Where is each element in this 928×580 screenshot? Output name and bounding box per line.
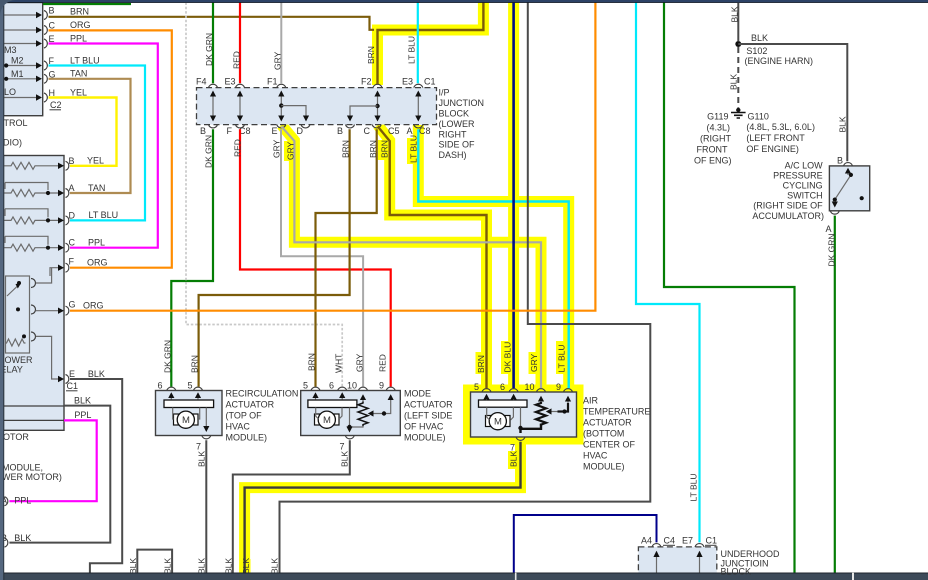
air temp actuator ground link to pin 7 (bold) [521, 424, 542, 434]
svg-text:(4.3L): (4.3L) [706, 123, 730, 133]
wire DK GRN A/C switch pin A to ground bus [834, 216, 836, 575]
svg-text:BLK: BLK [838, 116, 848, 132]
svg-text:PPL: PPL [70, 33, 87, 43]
wire DK GRN top edge to I/P pin F4 [212, 0, 214, 83]
svg-text:DASH): DASH) [439, 150, 467, 160]
mode actuator bottom pin arc 7 [345, 436, 354, 439]
I/P junction block (dashed) [197, 88, 437, 125]
svg-text:BLK: BLK [128, 558, 138, 574]
svg-text:GRY: GRY [529, 353, 539, 372]
svg-text:S102: S102 [746, 46, 767, 56]
highlight patch: label LT BLU at air temp pin 9 [556, 341, 566, 374]
switch blade and contacts [835, 175, 851, 200]
recirc actuator motor M [174, 414, 179, 425]
wire PPL control head pin E to resistor block pin C [49, 44, 158, 248]
svg-text:OTOR: OTOR [3, 432, 29, 442]
air temp actuator position sensor resistor (bold) [536, 402, 546, 426]
svg-text:GRY: GRY [355, 353, 365, 372]
air temp actuator motor M [486, 416, 491, 427]
resistor block pin arcs B A D C F G E [66, 161, 69, 383]
svg-text:FRONT: FRONT [697, 145, 728, 155]
highlight patch: label GRY at I/P pin E [284, 141, 294, 161]
svg-text:OF HVAC: OF HVAC [404, 422, 444, 432]
svg-text:BLK: BLK [270, 558, 280, 574]
wire LT BLU top edge to underhood junction pin E7 [636, 0, 700, 542]
svg-text:LT BLU: LT BLU [557, 344, 567, 372]
highlight patch: label LT BLU at I/P pin A [407, 138, 417, 164]
svg-text:BRN: BRN [380, 140, 390, 158]
wire GRY top edge to I/P pin F1 [280, 0, 282, 83]
svg-text:LT BLU: LT BLU [407, 36, 417, 64]
svg-text:BLOCK: BLOCK [721, 566, 752, 576]
wire DK GRN top edge to ground bus right [664, 0, 795, 575]
svg-text:6: 6 [158, 381, 163, 391]
air temp actuator bottom pin arc 7 [516, 437, 525, 440]
wire BLK (highlighted) air temp actuator pin 7 to ground bus [245, 442, 521, 575]
svg-text:BRN: BRN [476, 355, 486, 373]
svg-text:MODULE): MODULE) [583, 462, 625, 472]
wire LT BLU top edge to I/P pin C1 [417, 0, 419, 83]
svg-text:LO: LO [4, 87, 16, 97]
wire BLK splice S102 to A/C switch pin B [738, 44, 847, 161]
svg-text:MODULE,: MODULE, [2, 463, 43, 473]
wire DK BLU ground bus to underhood junction pin A4 [514, 515, 657, 575]
air temp actuator ground lead from bar [520, 407, 522, 427]
svg-text:TROL: TROL [4, 118, 28, 128]
recirc actuator feed arrows pins 6 and 5 [170, 394, 172, 400]
svg-text:ORG: ORG [87, 258, 108, 268]
page left border [0, 0, 4, 580]
svg-text:DIO): DIO) [3, 138, 22, 148]
svg-text:B: B [837, 156, 843, 166]
A/C low pressure cycling switch box [829, 166, 869, 211]
recirc actuator top pin arcs 6 5 [167, 387, 203, 390]
svg-text:BLK: BLK [88, 369, 105, 379]
svg-text:9: 9 [556, 382, 561, 392]
wire ORG top edge to resistor block pin G [70, 0, 595, 311]
control head internal wire pin B [4, 14, 37, 16]
wire BLK top edge right loop to ground bus [280, 0, 651, 575]
I/P internal through-path F2-C with tap node to pin B [377, 92, 379, 120]
svg-text:C5: C5 [388, 126, 400, 136]
svg-text:6: 6 [329, 381, 334, 391]
blower resistor / power relay block (partial, left) [4, 156, 65, 431]
air temp actuator top pin arcs 5 6 10 9 [482, 389, 573, 392]
highlight patch: label BLK at air temp pin 7 [508, 451, 518, 469]
I/P top pin arcs F4 E3 F1 F2 E3 [209, 84, 423, 87]
svg-text:BLK: BLK [74, 396, 91, 406]
recirc actuator bottom pin arc 7 [202, 436, 211, 439]
svg-text:MODULE): MODULE) [404, 433, 446, 443]
svg-text:PPL: PPL [88, 238, 105, 248]
wire BLK mode actuator pin 7 to ground bus [233, 440, 350, 575]
svg-text:A4: A4 [641, 536, 652, 546]
svg-text:ACTUATOR: ACTUATOR [404, 400, 453, 410]
air temperature actuator M3 box (highlighted) [471, 392, 577, 437]
wire BLK relay block to blower motor pin B [9, 406, 110, 543]
svg-text:A: A [69, 183, 75, 193]
svg-text:I/P: I/P [439, 88, 450, 98]
wire BLK relay pin E C1 to ground bus [70, 379, 122, 575]
svg-text:M3: M3 [4, 45, 17, 55]
I/P bottom pin arcs B F E D B C A [209, 125, 423, 128]
svg-text:(LEFT FRONT: (LEFT FRONT [746, 133, 805, 143]
svg-text:HVAC: HVAC [226, 422, 251, 432]
svg-text:C4: C4 [664, 536, 676, 546]
wire BRN (highlighted) I/P pin C to air temp actuator pin 5 [378, 127, 487, 389]
resistor R row C with tap node [4, 236, 59, 251]
svg-text:BLK: BLK [751, 33, 768, 43]
svg-text:DK GRN: DK GRN [204, 135, 214, 168]
highlight band: LT BLU wire I/P pin A C8 to air temp actuator pin 9 [418, 125, 568, 392]
svg-text:AIR: AIR [583, 396, 599, 406]
control head pin arcs B C E F G H [44, 11, 47, 103]
power relay internal box [6, 276, 30, 353]
svg-text:7: 7 [340, 442, 345, 452]
svg-text:C1: C1 [424, 77, 436, 87]
blower motor pin arcs A B [5, 497, 8, 547]
svg-text:BLK: BLK [730, 6, 740, 22]
mode actuator top pin arcs 5 6 10 9 [311, 387, 395, 390]
svg-text:F1: F1 [267, 77, 278, 87]
svg-text:MODULE): MODULE) [226, 433, 268, 443]
svg-text:WHT: WHT [334, 354, 344, 373]
svg-text:B: B [200, 126, 206, 136]
wire BLK engine harness to splice S102 [737, 3, 739, 42]
svg-text:B: B [337, 126, 343, 136]
page top border [0, 0, 928, 2]
svg-text:CYCLING: CYCLING [783, 181, 823, 191]
switch feed arrow from pin B [847, 170, 849, 176]
resistor R row B [4, 162, 59, 169]
highlight band: BRN wire I/P pin C to air temp actuator pin 5 [378, 125, 487, 392]
svg-text:(4.8L, 5.3L, 6.0L): (4.8L, 5.3L, 6.0L) [746, 122, 815, 132]
svg-text:C: C [364, 126, 371, 136]
svg-text:D: D [297, 126, 304, 136]
highlight patch: label BRN at I/P pin C [378, 140, 388, 160]
svg-text:RED: RED [232, 51, 242, 69]
internal wire pin F [50, 268, 59, 276]
svg-text:C: C [69, 238, 76, 248]
svg-text:D: D [69, 211, 76, 221]
svg-text:5: 5 [188, 381, 193, 391]
relay coil [5, 339, 25, 346]
svg-text:ORG: ORG [70, 20, 91, 30]
svg-text:C2: C2 [50, 100, 62, 110]
svg-text:BLK: BLK [224, 558, 234, 574]
svg-text:UNDERHOOD: UNDERHOOD [721, 549, 781, 559]
svg-text:SIDE OF: SIDE OF [439, 140, 476, 150]
svg-text:YEL: YEL [70, 87, 87, 97]
HVAC control head block (partial, top left) [4, 3, 43, 116]
I/P internal through-path E3-A C8 [417, 92, 419, 120]
svg-text:A/C LOW: A/C LOW [785, 161, 824, 171]
svg-text:(ENGINE HARN): (ENGINE HARN) [745, 56, 814, 66]
svg-text:MODE: MODE [404, 389, 431, 399]
recirc actuator ground link to pin 7 [205, 408, 207, 432]
wire DK BLU (highlighted) top edge to air temp actuator pin 6 [512, 0, 515, 388]
highlight patch: label DK BLU at air temp pin 6 [501, 341, 511, 374]
svg-text:E: E [69, 369, 75, 379]
svg-text:M: M [494, 417, 502, 428]
svg-text:HVAC: HVAC [583, 451, 608, 461]
svg-text:PRESSURE: PRESSURE [773, 171, 823, 181]
relay internal contact arcs [31, 279, 36, 342]
wire BRN I/P pin B to recirculation actuator pin 5 [199, 129, 350, 386]
svg-text:ORG: ORG [83, 301, 104, 311]
svg-text:OF ENG): OF ENG) [694, 156, 732, 166]
svg-text:RIGHT: RIGHT [439, 130, 468, 140]
svg-text:GRY: GRY [273, 51, 283, 70]
svg-text:BLK: BLK [197, 558, 207, 574]
svg-text:(LOWER: (LOWER [439, 119, 476, 129]
svg-text:BLK: BLK [241, 558, 251, 574]
svg-text:F: F [227, 126, 233, 136]
highlight patch: label BRN at air temp pin 5 [476, 352, 486, 374]
svg-text:E3: E3 [402, 77, 413, 87]
mode actuator position sensor resistor [358, 402, 368, 427]
wire RED I/P pin F to mode actuator pin 9 [240, 129, 391, 386]
svg-text:DK GRN: DK GRN [163, 340, 173, 373]
highlight patch: label GRY at air temp pin 10 [529, 352, 539, 374]
svg-text:BRN: BRN [307, 353, 317, 371]
wire LT BLU control head pin F to resistor block pin D [49, 66, 146, 221]
wire YEL control head pin H to resistor block pin B [49, 98, 117, 166]
wire DK GRN stub at control head top [43, 3, 131, 5]
svg-text:BLK: BLK [340, 451, 350, 467]
control head internal wire pin C [4, 29, 37, 31]
svg-text:M2: M2 [11, 56, 24, 66]
svg-text:LT BLU: LT BLU [70, 55, 100, 65]
svg-text:BRN: BRN [366, 46, 376, 64]
svg-text:F: F [69, 257, 75, 267]
control head internal wire pin G with node M1 [4, 78, 37, 80]
relay contact to pin E link [36, 336, 59, 379]
svg-text:C1: C1 [67, 381, 79, 391]
wire GRY (highlighted) I/P pin E to air temp actuator pin 10 [282, 127, 542, 389]
mode actuator wiper arm from pin 9 [372, 402, 391, 414]
recirc actuator motor leads from bar [173, 408, 200, 420]
svg-text:A: A [826, 224, 832, 234]
wire BLK recirculation actuator pin 7 to ground bus [205, 440, 207, 575]
ground strap at bus below resistor block [137, 550, 172, 575]
mode actuator motor M [315, 414, 320, 425]
svg-text:RED: RED [378, 354, 388, 372]
highlight band: BRN wire control head B to I/P F2 and off page top [378, 0, 484, 85]
relay block internal divider lines [4, 405, 65, 407]
highlight patch: label BLK at ground bus below air temp [241, 559, 251, 574]
svg-text:(RIGHT SIDE OF: (RIGHT SIDE OF [753, 201, 823, 211]
svg-text:E3: E3 [225, 77, 236, 87]
underhood internal pin feeds A4 and E7 [656, 552, 658, 579]
splice S102 [735, 41, 741, 47]
svg-text:RECIRCULATION: RECIRCULATION [226, 389, 299, 399]
I/P internal through-path E3-F C8 [239, 92, 241, 120]
svg-text:E7: E7 [682, 536, 693, 546]
svg-text:G: G [69, 300, 76, 310]
svg-text:5: 5 [474, 382, 479, 392]
mode actuator motor leads from bar [316, 408, 342, 420]
svg-text:M: M [182, 415, 190, 426]
page corner round [0, 0, 16, 16]
I/P internal through-path F1-E with tap node to pin D [280, 92, 282, 120]
svg-text:BLK: BLK [197, 451, 207, 467]
svg-text:M: M [323, 415, 331, 426]
resistor R row D with tap node [4, 209, 59, 224]
svg-text:DK BLU: DK BLU [503, 342, 513, 373]
svg-text:LT BLU: LT BLU [89, 210, 119, 220]
svg-text:BRN: BRN [70, 7, 89, 17]
wire GRY I/P pin E to mode actuator pin 10 [281, 129, 363, 386]
control head internal wire pin E [4, 43, 37, 45]
switch exit arrow to pin A [834, 201, 836, 206]
air temp actuator motor leads from bar [487, 407, 514, 420]
wire RED top edge to I/P pin E3 [239, 0, 241, 83]
recirculation actuator M1 box [156, 391, 223, 436]
I/P internal through-path F4-B [212, 92, 214, 120]
svg-text:10: 10 [525, 382, 535, 392]
svg-text:E: E [272, 126, 278, 136]
wire BLK (dashed) splice S102 to ground G119 G110 [737, 47, 739, 108]
highlight glow: air temperature actuator box [467, 388, 581, 441]
wire BRN (highlighted) corner to I/P pin F2 and off page top [378, 0, 484, 84]
ground bus bar at page bottom [0, 573, 928, 580]
svg-text:TAN: TAN [70, 69, 87, 79]
svg-text:GRY: GRY [272, 139, 282, 158]
switch pin arcs B A [830, 163, 852, 215]
svg-text:C8: C8 [419, 126, 431, 136]
control head internal wire pin H [4, 97, 37, 99]
svg-text:BRN: BRN [190, 355, 200, 373]
svg-text:WER MOTOR): WER MOTOR) [2, 472, 62, 482]
svg-text:A: A [407, 126, 413, 136]
air temp actuator lever bar [479, 400, 528, 407]
svg-text:LT BLU: LT BLU [409, 135, 419, 163]
ground G119 G110 [736, 108, 740, 112]
svg-text:(TOP OF: (TOP OF [226, 411, 263, 421]
svg-text:B: B [69, 156, 75, 166]
mode actuator ground lead from bar with node to pin 7 [350, 408, 364, 432]
wire PPL relay block to blower motor pin A [9, 420, 96, 501]
svg-text:6: 6 [500, 382, 505, 392]
wire ORG control head pin C to resistor block pin F [49, 30, 172, 267]
svg-text:BLOCK: BLOCK [439, 109, 470, 119]
control head internal wire pin F with node M2 [4, 65, 37, 67]
svg-text:BLK: BLK [509, 451, 519, 467]
wire TAN control head pin G to resistor block pin A [49, 79, 131, 193]
mode actuator feed arrows pins 5 and 6 [315, 394, 317, 400]
wire BRN control head pin B to I/P F2 corner [49, 17, 375, 30]
svg-text:BLK: BLK [729, 74, 739, 90]
mode actuator feed arrows pins 10 and 9 [362, 396, 364, 402]
svg-text:SWITCH: SWITCH [787, 191, 823, 201]
svg-text:PPL: PPL [74, 410, 91, 420]
svg-text:TAN: TAN [88, 183, 105, 193]
mode actuator lever bar [308, 400, 357, 408]
svg-text:YEL: YEL [87, 156, 104, 166]
highlight band: GRY wire I/P pin E to air temp actuator pin 10 [282, 125, 542, 392]
relay switch blade arrow [7, 286, 18, 296]
svg-text:G119: G119 [707, 112, 728, 122]
svg-text:DK GRN: DK GRN [204, 33, 214, 66]
underhood junction block (dashed) [638, 547, 716, 580]
wire LT BLU (highlighted) I/P pin A to air temp actuator pin 9 [418, 129, 568, 388]
svg-text:ACCUMULATOR): ACCUMULATOR) [752, 211, 824, 221]
highlight band: DK BLU wire top edge to air temp actuator pin 6 [508, 0, 519, 392]
svg-text:BRN: BRN [368, 140, 378, 158]
svg-text:BLK: BLK [14, 533, 31, 543]
svg-text:LT BLU: LT BLU [689, 473, 699, 501]
svg-text:GRY: GRY [286, 141, 296, 160]
svg-text:OWER: OWER [5, 355, 33, 365]
svg-text:ACTUATOR: ACTUATOR [226, 400, 275, 410]
svg-text:ACTUATOR: ACTUATOR [583, 418, 632, 428]
svg-text:BLK: BLK [163, 558, 173, 574]
mode actuator M2 box [301, 391, 401, 436]
wire DK GRN I/P pin B to recirculation actuator pin 6 [171, 129, 213, 386]
svg-text:BRN: BRN [341, 140, 351, 158]
underhood top pin arcs A4 E7 [652, 544, 704, 547]
svg-text:(BOTTOM: (BOTTOM [583, 429, 624, 439]
svg-text:F4: F4 [196, 77, 207, 87]
svg-text:DK GRN: DK GRN [827, 233, 837, 266]
svg-text:CENTER OF: CENTER OF [583, 440, 636, 450]
recirc actuator lever bar [164, 400, 214, 408]
air temp actuator wiper arm from pin 9 [558, 403, 569, 412]
svg-text:RED: RED [233, 139, 243, 157]
svg-text:TEMPERATURE: TEMPERATURE [583, 407, 650, 417]
svg-text:7: 7 [196, 442, 201, 452]
wire WHT top edge to mode actuator pin 6 [186, 3, 342, 387]
svg-text:9: 9 [379, 381, 384, 391]
svg-text:OF ENGINE): OF ENGINE) [746, 144, 799, 154]
svg-text:G110: G110 [748, 112, 769, 122]
svg-text:C: C [49, 21, 56, 31]
svg-text:F2: F2 [361, 77, 372, 87]
highlight band: BLK wire air temp actuator pin 7 to ground bus [245, 437, 521, 575]
svg-text:10: 10 [347, 381, 357, 391]
resistor R row A with tap node [4, 183, 59, 197]
svg-text:(RIGHT: (RIGHT [700, 134, 731, 144]
svg-text:5: 5 [303, 381, 308, 391]
svg-text:JUNCTION: JUNCTION [439, 98, 485, 108]
svg-text:B: B [49, 6, 55, 16]
svg-text:C1: C1 [706, 536, 718, 546]
svg-text:M1: M1 [11, 69, 24, 79]
wire BRN I/P pin C to mode actuator pin 5 [316, 129, 377, 386]
relay contact to pin G link [36, 310, 59, 312]
air temp actuator feed arrows pins 10 and 9 [540, 398, 542, 403]
svg-text:PPL: PPL [14, 495, 31, 505]
relay contact to pin F link [36, 268, 52, 283]
svg-text:(LEFT SIDE: (LEFT SIDE [404, 411, 452, 421]
relay contact nodes [17, 281, 21, 285]
air temp actuator feed arrows pins 5 and 6 [486, 396, 488, 402]
